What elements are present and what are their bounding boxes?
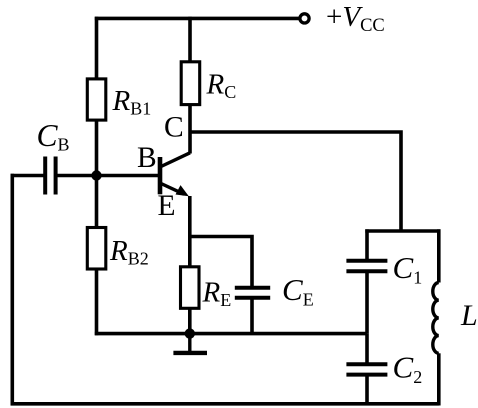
svg-text:RC: RC: [206, 69, 237, 103]
wire base: [58, 174, 159, 178]
emitter lead: [161, 184, 184, 195]
wire RE bottom: [188, 309, 192, 334]
ground: [173, 334, 207, 353]
wire RB1 branch top: [95, 17, 99, 80]
svg-text:B: B: [137, 142, 157, 174]
emitter arrowhead: [176, 185, 189, 196]
wire RB1 to node: [95, 119, 99, 177]
terminal +VCC: [300, 14, 309, 23]
base bar: [158, 157, 163, 194]
capacitor C1: [346, 261, 387, 271]
node base junction: [91, 170, 101, 180]
wire emitter to CE branch: [190, 237, 252, 289]
svg-text:RB1: RB1: [112, 85, 152, 119]
svg-text:C: C: [164, 112, 184, 144]
svg-text:CE: CE: [282, 272, 314, 310]
wire C1 to mid rail: [365, 272, 369, 334]
wire RB2 bottom: [95, 268, 99, 336]
svg-text:RE: RE: [202, 277, 232, 311]
svg-text:CB: CB: [37, 118, 70, 155]
wire mid rail: [95, 332, 367, 336]
wire emitter vertical: [188, 196, 192, 269]
wire RC branch top: [188, 17, 192, 63]
wire left rail: [11, 174, 15, 406]
collector lead: [161, 153, 190, 167]
svg-text:L: L: [460, 299, 478, 332]
wire C1 top: [365, 229, 369, 260]
node emitter ground junction: [185, 328, 195, 338]
wire C2 bottom: [365, 375, 369, 404]
wire top rail: [95, 17, 300, 21]
wire L bottom: [437, 353, 441, 405]
svg-text:C1: C1: [393, 250, 423, 288]
capacitor CE: [235, 288, 270, 298]
inductor L: [433, 283, 439, 354]
wire L top: [437, 229, 441, 282]
wire CE bottom: [250, 298, 254, 334]
transistor Q1: [160, 153, 190, 195]
svg-text:E: E: [158, 190, 176, 222]
resistor RB1: [87, 79, 106, 120]
svg-text:+VCC: +VCC: [326, 1, 385, 36]
svg-text:RB2: RB2: [109, 235, 149, 269]
svg-text:C2: C2: [393, 350, 423, 388]
wire RB2 top: [95, 176, 99, 229]
resistor RB2: [87, 228, 106, 270]
wire RC to collector junction: [188, 104, 192, 154]
capacitor C2: [346, 364, 387, 374]
resistor RE: [181, 267, 200, 309]
capacitor CB: [45, 157, 55, 195]
wire left to CB: [11, 174, 46, 178]
wire tank top: [365, 229, 440, 233]
wire C2 top: [365, 334, 369, 364]
wire collector to tank: [190, 132, 401, 231]
wire bottom rail: [11, 402, 439, 406]
resistor RC: [181, 62, 200, 105]
